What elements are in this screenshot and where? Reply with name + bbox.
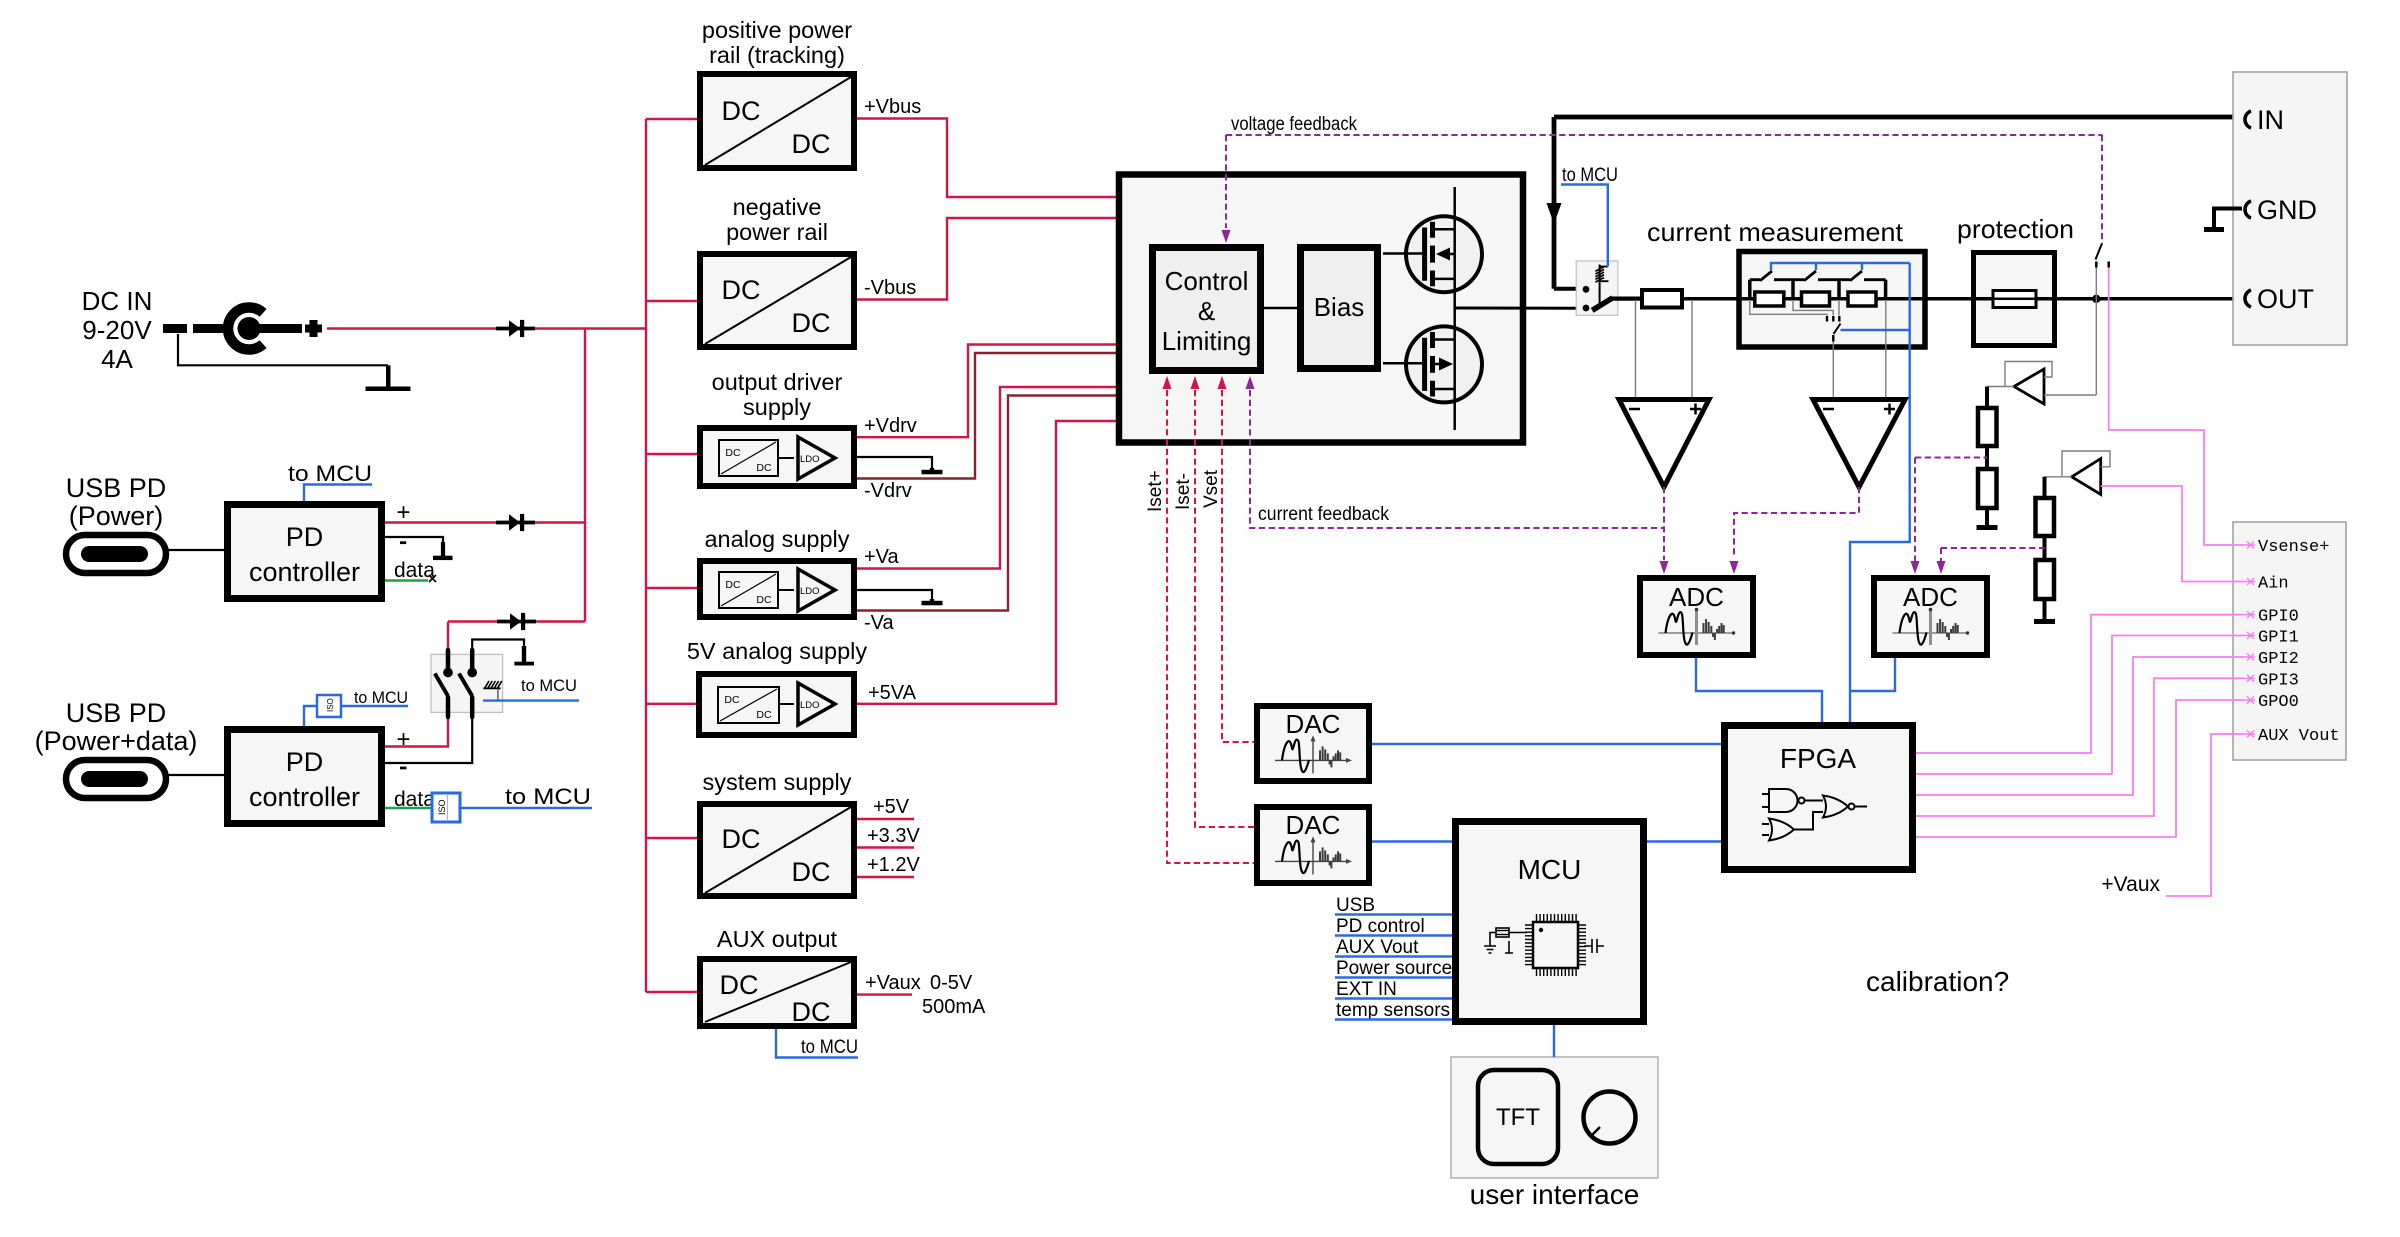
svg-text:DAC: DAC <box>1286 709 1341 739</box>
svg-text:Iset-: Iset- <box>1173 473 1194 510</box>
svg-text:to MCU: to MCU <box>521 676 577 695</box>
svg-text:ISO: ISO <box>437 799 447 815</box>
svg-text:DC: DC <box>792 997 831 1027</box>
svg-text:GPI3: GPI3 <box>2258 671 2299 690</box>
svg-text:(Power+data): (Power+data) <box>35 726 198 756</box>
svg-text:Vset: Vset <box>1201 469 1222 508</box>
svg-text:+: + <box>396 726 410 753</box>
svg-text:DC: DC <box>725 579 741 591</box>
svg-text:-Vbus: -Vbus <box>864 277 916 299</box>
svg-text:DC IN: DC IN <box>82 286 153 316</box>
svg-text:LDO: LDO <box>800 454 820 465</box>
svg-text:Iset+: Iset+ <box>1145 470 1166 512</box>
svg-text:+5VA: +5VA <box>868 682 917 704</box>
svg-text:calibration?: calibration? <box>1866 966 2009 997</box>
svg-text:+3.3V: +3.3V <box>867 825 920 847</box>
svg-text:+Vbus: +Vbus <box>864 96 921 118</box>
svg-text:protection: protection <box>1957 214 2074 244</box>
svg-text:&: & <box>1198 296 1215 326</box>
svg-text:positive power: positive power <box>702 17 852 43</box>
svg-text:+Vdrv: +Vdrv <box>864 415 917 437</box>
svg-text:9-20V: 9-20V <box>82 315 152 345</box>
svg-text:voltage feedback: voltage feedback <box>1231 114 1357 135</box>
svg-text:Control: Control <box>1165 266 1249 296</box>
svg-text:ADC: ADC <box>1903 582 1958 612</box>
svg-text:PD: PD <box>286 747 324 777</box>
svg-text:Limiting: Limiting <box>1162 326 1252 356</box>
svg-text:(Power): (Power) <box>69 501 164 531</box>
svg-text:to MCU: to MCU <box>505 784 591 809</box>
svg-text:system supply: system supply <box>703 769 852 795</box>
svg-text:controller: controller <box>249 557 360 587</box>
svg-text:USB PD: USB PD <box>66 473 167 503</box>
svg-text:controller: controller <box>249 782 360 812</box>
svg-text:+Vaux: +Vaux <box>865 972 921 994</box>
svg-text:GPO0: GPO0 <box>2258 693 2299 712</box>
svg-text:5V analog supply: 5V analog supply <box>687 638 868 664</box>
svg-text:+5V: +5V <box>873 796 910 818</box>
svg-text:Ain: Ain <box>2258 575 2289 594</box>
svg-text:DC: DC <box>792 129 831 159</box>
svg-text:USB: USB <box>1336 895 1375 916</box>
svg-text:to MCU: to MCU <box>801 1037 858 1058</box>
svg-text:500mA: 500mA <box>922 996 986 1018</box>
svg-text:supply: supply <box>743 394 811 420</box>
svg-text:DAC: DAC <box>1286 810 1341 840</box>
svg-text:AUX Vout: AUX Vout <box>2258 727 2340 746</box>
svg-text:PD: PD <box>286 522 324 552</box>
svg-text:DC: DC <box>724 694 740 706</box>
svg-text:data: data <box>394 559 435 582</box>
svg-text:GND: GND <box>2257 195 2317 225</box>
svg-text:DC: DC <box>792 308 831 338</box>
svg-text:OUT: OUT <box>2257 284 2314 314</box>
svg-text:LDO: LDO <box>800 586 820 597</box>
svg-text:+Va: +Va <box>864 546 900 568</box>
svg-text:GPI1: GPI1 <box>2258 629 2299 648</box>
svg-text:DC: DC <box>756 462 772 474</box>
svg-text:FPGA: FPGA <box>1780 743 1857 774</box>
svg-text:ISO: ISO <box>326 698 335 712</box>
svg-text:GPI2: GPI2 <box>2258 650 2299 669</box>
svg-text:GPI0: GPI0 <box>2258 608 2299 627</box>
svg-text:DC: DC <box>720 970 759 1000</box>
svg-text:current measurement: current measurement <box>1647 217 1904 247</box>
svg-text:+Vaux: +Vaux <box>2101 873 2160 896</box>
svg-text:PD control: PD control <box>1336 916 1425 937</box>
svg-text:DC: DC <box>722 96 761 126</box>
svg-text:DC: DC <box>792 857 831 887</box>
svg-text:-Vdrv: -Vdrv <box>864 480 912 502</box>
svg-text:analog supply: analog supply <box>704 526 849 552</box>
svg-text:MCU: MCU <box>1518 854 1582 885</box>
svg-text:DC: DC <box>722 275 761 305</box>
svg-text:IN: IN <box>2257 105 2284 135</box>
svg-text:DC: DC <box>756 594 772 606</box>
svg-text:Power source: Power source <box>1336 958 1452 979</box>
svg-text:DC: DC <box>756 709 772 721</box>
svg-text:negative: negative <box>733 194 822 220</box>
svg-text:to MCU: to MCU <box>354 688 408 707</box>
svg-text:ADC: ADC <box>1669 582 1724 612</box>
svg-text:0-5V: 0-5V <box>930 972 973 994</box>
svg-text:LDO: LDO <box>800 700 820 711</box>
svg-text:-Va: -Va <box>864 612 895 634</box>
svg-text:Vsense+: Vsense+ <box>2258 538 2329 557</box>
svg-text:USB PD: USB PD <box>66 698 167 728</box>
svg-text:AUX output: AUX output <box>717 926 838 952</box>
svg-text:to MCU: to MCU <box>1562 165 1618 186</box>
svg-text:power rail: power rail <box>726 219 828 245</box>
svg-text:temp sensors: temp sensors <box>1336 1000 1450 1021</box>
svg-text:4A: 4A <box>101 344 133 374</box>
svg-text:Bias: Bias <box>1314 292 1365 322</box>
svg-text:to MCU: to MCU <box>288 461 372 486</box>
svg-text:+1.2V: +1.2V <box>867 854 920 876</box>
svg-text:EXT IN: EXT IN <box>1336 979 1397 1000</box>
svg-text:DC: DC <box>722 824 761 854</box>
svg-text:current feedback: current feedback <box>1258 504 1389 525</box>
svg-text:TFT: TFT <box>1496 1104 1540 1131</box>
svg-text:user interface: user interface <box>1470 1179 1640 1210</box>
svg-text:rail (tracking): rail (tracking) <box>709 42 845 68</box>
svg-text:AUX Vout: AUX Vout <box>1336 937 1419 958</box>
svg-text:output driver: output driver <box>712 369 843 395</box>
svg-text:DC: DC <box>725 447 741 459</box>
